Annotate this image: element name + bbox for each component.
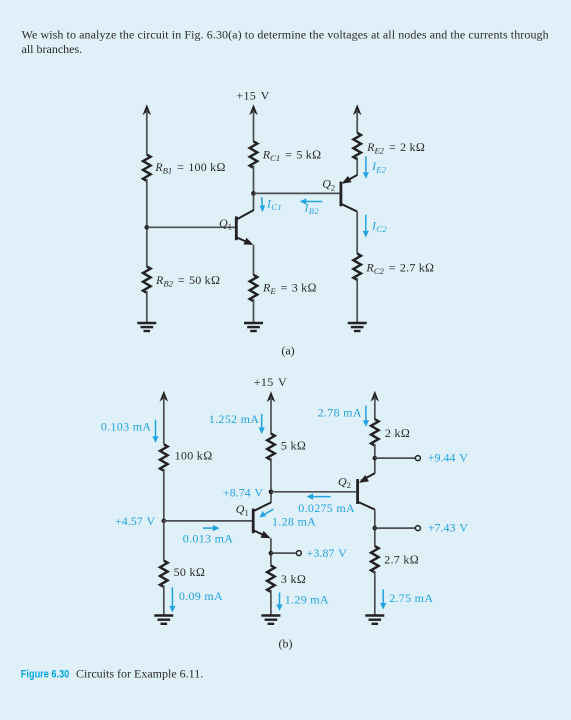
resistor 2.7k (b) xyxy=(371,546,379,572)
node +8.74 V xyxy=(269,489,274,494)
svg-text:100 kΩ: 100 kΩ xyxy=(175,448,213,462)
transistor Q2 (a) xyxy=(341,175,358,212)
svg-text:We wish to analyze the circuit: We wish to analyze the circuit in Fig. 6… xyxy=(22,28,549,42)
resistor RB1 xyxy=(143,155,151,181)
wire base Q1 (a) xyxy=(147,226,235,228)
wire 3k to ground (b) xyxy=(270,590,272,615)
wire middle rail 5k to Q1 collector (b) xyxy=(270,458,272,502)
node left base (a) xyxy=(144,225,149,230)
ground middle (a) xyxy=(244,323,263,331)
current arrow 2.78 mA xyxy=(363,406,369,427)
current arrow 0.0275 mA xyxy=(307,494,331,500)
supply arrow right rail (a) xyxy=(353,104,362,133)
terminal +3.87 V xyxy=(296,551,301,556)
wire base Q2 (a) xyxy=(254,192,340,194)
resistor RC2 xyxy=(353,254,361,280)
svg-text:2.75 mA: 2.75 mA xyxy=(389,591,433,605)
ground right (a) xyxy=(348,323,367,331)
wire to +9.44 terminal xyxy=(375,457,416,459)
svg-text:Circuits for Example 6.11.: Circuits for Example 6.11. xyxy=(76,667,203,681)
current arrow IC1 xyxy=(260,197,266,212)
supply arrow left rail (a) xyxy=(143,104,152,154)
current arrow 0.103 mA xyxy=(152,420,158,443)
svg-text:1.29 mA: 1.29 mA xyxy=(285,592,329,606)
resistor RE2 xyxy=(353,133,361,159)
svg-text:+9.44 V: +9.44 V xyxy=(428,451,469,465)
svg-text:+15 V: +15 V xyxy=(236,89,269,103)
current arrow 2.75 mA xyxy=(380,589,386,609)
svg-text:(b): (b) xyxy=(279,636,293,650)
svg-text:0.0275 mA: 0.0275 mA xyxy=(298,501,355,515)
wire Q2 collector to RC2 xyxy=(356,212,358,254)
resistor RB2 xyxy=(143,266,151,292)
svg-text:50 kΩ: 50 kΩ xyxy=(174,565,206,579)
wire left rail RB2 to ground xyxy=(146,291,148,323)
transistor Q1 (a) xyxy=(236,210,254,245)
current arrow 1.28 mA xyxy=(259,509,273,517)
transistor Q2 (b) xyxy=(358,473,375,509)
wire left rail 100k to node xyxy=(163,469,165,521)
current arrow IC2 xyxy=(363,215,369,238)
current arrow 0.013 mA xyxy=(203,525,220,531)
transistor Q1 (b) xyxy=(253,502,271,538)
wire to +7.43 terminal xyxy=(375,527,416,529)
resistor 100k (b) xyxy=(160,444,168,470)
wire RE to ground xyxy=(253,299,255,323)
supply arrow left rail (b) xyxy=(160,391,169,444)
wire Q2 collector to 2.7k (b) xyxy=(374,509,376,546)
wire middle rail RC1 to Q1 collector xyxy=(253,166,255,211)
svg-text:2.78 mA: 2.78 mA xyxy=(318,406,362,420)
supply arrow middle rail (a) xyxy=(249,104,258,142)
svg-text:(a): (a) xyxy=(281,343,294,357)
wire left node to 50k xyxy=(163,521,165,561)
current arrow 0.09 mA xyxy=(169,587,175,612)
current arrow 1.29 mA xyxy=(276,593,282,612)
terminal +9.44 V xyxy=(415,456,420,461)
svg-text:2.7 kΩ: 2.7 kΩ xyxy=(384,553,419,567)
svg-text:1.252 mA: 1.252 mA xyxy=(209,412,259,426)
ground left (a) xyxy=(137,323,156,331)
svg-text:all branches.: all branches. xyxy=(22,42,83,56)
wire to +3.87 terminal xyxy=(271,552,296,554)
supply arrow right rail (b) xyxy=(371,391,380,420)
svg-text:0.103 mA: 0.103 mA xyxy=(101,420,151,434)
svg-text:+8.74 V: +8.74 V xyxy=(223,485,264,499)
resistor 50k (b) xyxy=(160,561,168,587)
figure caption xyxy=(21,667,203,681)
node collector Q1 / base Q2 (a) xyxy=(251,191,256,196)
ground right (b) xyxy=(365,616,384,624)
svg-text:+3.87 V: +3.87 V xyxy=(307,546,348,560)
svg-text:RE = 3 kΩ: RE = 3 kΩ xyxy=(262,281,317,297)
ground middle (b) xyxy=(261,616,280,624)
wire base Q1 (b) xyxy=(164,520,252,522)
terminal +7.43 V xyxy=(415,526,420,531)
current arrow IE2 xyxy=(363,156,369,179)
wire 2.7k to ground (b) xyxy=(374,571,376,615)
resistor 2k (b) xyxy=(371,419,379,445)
wire Q1 emitter to 3k node (b) xyxy=(270,538,272,565)
resistor RC1 xyxy=(250,141,258,167)
wire RE2 to Q2 emitter xyxy=(356,157,358,175)
svg-text:+15 V: +15 V xyxy=(254,375,287,389)
wire 50k to ground (b) xyxy=(163,585,165,615)
svg-text:Figure 6.30: Figure 6.30 xyxy=(21,669,70,681)
wire 2k to Q2 emitter (b) xyxy=(374,444,376,474)
wire emitter Q1 to RE xyxy=(253,245,255,275)
paragraph text xyxy=(22,28,549,57)
svg-text:2 kΩ: 2 kΩ xyxy=(385,426,410,440)
svg-text:0.013 mA: 0.013 mA xyxy=(183,532,233,546)
ground left (b) xyxy=(154,616,173,624)
svg-text:3 kΩ: 3 kΩ xyxy=(281,572,306,586)
wire RC2 to ground xyxy=(356,278,358,323)
node +7.43 V xyxy=(372,526,377,531)
resistor 5k (b) xyxy=(267,434,275,460)
svg-text:+4.57 V: +4.57 V xyxy=(115,514,156,528)
resistor 3k (b) xyxy=(267,566,275,592)
svg-text:5 kΩ: 5 kΩ xyxy=(281,438,306,452)
current arrow 1.252 mA xyxy=(259,414,265,434)
resistor RE xyxy=(250,275,258,301)
svg-text:0.09 mA: 0.09 mA xyxy=(179,589,223,603)
svg-text:1.28 mA: 1.28 mA xyxy=(272,515,316,529)
node +4.57 V xyxy=(161,519,166,524)
current arrow IB2 xyxy=(300,198,323,204)
svg-text:+7.43 V: +7.43 V xyxy=(428,521,469,535)
node +3.87 V xyxy=(269,551,274,556)
supply arrow middle rail (b) xyxy=(267,391,276,434)
wire left rail RB1 to RB2 xyxy=(146,179,148,267)
node +9.44 V xyxy=(372,456,377,461)
wire base Q2 (b) xyxy=(271,491,356,493)
